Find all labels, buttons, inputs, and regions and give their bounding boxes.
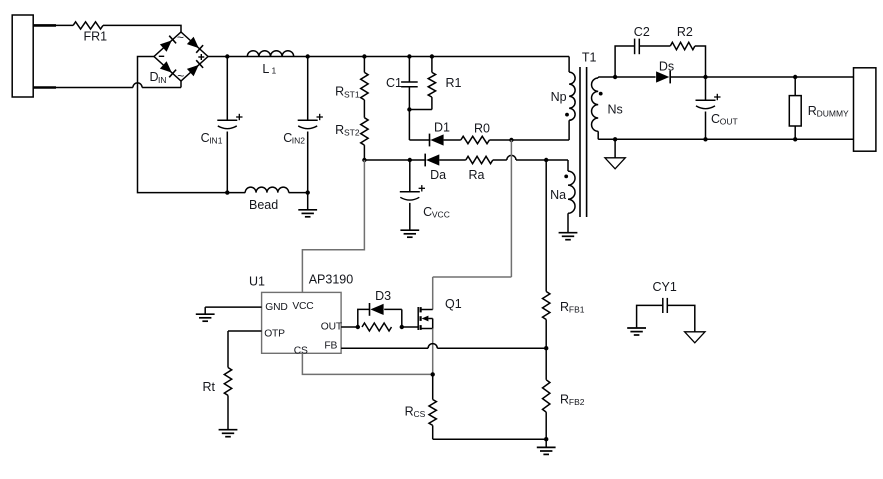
resistor R0: [461, 122, 569, 144]
svg-text:Bead: Bead: [249, 198, 278, 212]
svg-text:C2: C2: [634, 25, 650, 39]
node C1-R1 junction: [407, 107, 432, 111]
wire VCC feed: [302, 160, 364, 292]
wire: [56, 81, 181, 88]
svg-text:GND: GND: [265, 302, 287, 313]
capacitor CIN1: [201, 57, 243, 193]
wire OTP pin: [228, 331, 262, 368]
svg-text:Ds: Ds: [659, 59, 674, 73]
ground: [559, 233, 578, 240]
ground: [537, 439, 556, 454]
svg-text:C: C: [711, 112, 720, 126]
svg-text:R: R: [560, 300, 569, 314]
resistor RST2: [335, 100, 368, 160]
resistor RST1: [335, 57, 368, 100]
svg-text:Ns: Ns: [608, 103, 623, 117]
wire: [545, 160, 547, 292]
wire Ns bottom: [598, 138, 853, 140]
svg-text:R2: R2: [677, 25, 693, 39]
capacitor CIN2: [283, 57, 323, 193]
diode D3: [358, 289, 402, 327]
svg-text:R: R: [335, 85, 344, 99]
wire: [208, 56, 569, 58]
svg-text:CY1: CY1: [653, 280, 677, 294]
svg-text:CS: CS: [294, 346, 308, 357]
svg-text:IN: IN: [158, 75, 167, 85]
input connector: [12, 15, 56, 97]
transformer T1 core: [580, 51, 597, 218]
wire source drop: [432, 329, 434, 375]
node C_IN1 bottom: [225, 190, 229, 194]
node Ns top: [613, 75, 617, 79]
winding Np: [551, 57, 576, 141]
node C_IN1 top: [225, 54, 229, 58]
node drain junction: [509, 138, 513, 142]
wire: [706, 76, 854, 78]
resistor R2: [670, 25, 705, 77]
ground: [219, 430, 238, 437]
svg-text:FR1: FR1: [84, 29, 108, 43]
wire CS pin: [302, 353, 432, 374]
svg-text:R: R: [335, 123, 344, 137]
svg-text:R: R: [405, 405, 414, 419]
capacitor CY1: [653, 280, 677, 313]
capacitor C1: [386, 57, 418, 110]
svg-text:DUMMY: DUMMY: [817, 109, 849, 119]
wire FB: [341, 344, 546, 349]
wire: [433, 438, 547, 440]
output connector: [854, 68, 876, 151]
resistor RCS: [405, 374, 437, 439]
transistor Q1: [418, 297, 462, 330]
svg-text:~: ~: [177, 31, 184, 45]
resistor gate: [362, 323, 392, 331]
node FB junction: [544, 346, 548, 350]
svg-text:~: ~: [177, 69, 184, 83]
svg-text:FB: FB: [324, 341, 337, 352]
wire: [56, 24, 73, 26]
svg-text:R1: R1: [446, 76, 462, 90]
wire: [408, 110, 410, 141]
ground secondary: [605, 139, 625, 169]
resistor Ra: [466, 155, 568, 182]
node CS junction: [431, 372, 435, 376]
svg-text:OUT: OUT: [720, 117, 738, 127]
svg-text:C: C: [423, 205, 432, 219]
resistor FR1: [73, 22, 107, 44]
svg-text:ST2: ST2: [344, 128, 360, 138]
resistor RDUMMY: [789, 77, 849, 139]
node R_DUMMY bottom: [793, 137, 797, 141]
svg-text:ST1: ST1: [344, 89, 360, 99]
svg-text:Q1: Q1: [445, 297, 462, 311]
node C_OUT bottom: [703, 137, 707, 141]
resistor R1: [428, 57, 461, 110]
wire: [615, 46, 635, 77]
ground: [627, 328, 646, 335]
svg-text:AP3190: AP3190: [309, 273, 354, 287]
svg-text:OTP: OTP: [264, 329, 285, 340]
wire Ns top: [598, 76, 615, 78]
resistor RFB1: [543, 292, 585, 349]
svg-text:FB2: FB2: [569, 397, 585, 407]
diode Ds: [615, 59, 705, 83]
svg-text:IN1: IN1: [209, 135, 223, 145]
node R_ST2 bottom: [362, 158, 366, 162]
wire: [637, 305, 663, 327]
op-amp U1 AP3190 box: [249, 273, 353, 357]
svg-text:D1: D1: [434, 121, 450, 135]
diode D1: [409, 121, 460, 147]
node Ns bottom: [613, 137, 617, 141]
winding Ns: [592, 77, 623, 139]
resistor RFB2: [543, 348, 585, 439]
svg-text:Np: Np: [551, 90, 567, 104]
svg-text:Ra: Ra: [469, 168, 485, 182]
svg-text:Na: Na: [550, 188, 566, 202]
svg-text:L: L: [262, 62, 269, 76]
svg-text:FB1: FB1: [569, 305, 585, 315]
node R_FB1 top junction: [544, 158, 548, 162]
ground chassis: [685, 332, 705, 343]
resistor Rt: [203, 368, 232, 430]
node C_OUT top: [703, 75, 707, 79]
node R_DUMMY top: [793, 75, 797, 79]
winding Na: [550, 160, 575, 233]
svg-text:VCC: VCC: [432, 210, 450, 220]
ground: [298, 193, 317, 217]
node C_IN2 top: [306, 54, 310, 58]
svg-text:D3: D3: [375, 289, 391, 303]
capacitor COUT: [696, 77, 738, 139]
svg-text:IN2: IN2: [292, 135, 306, 145]
node C1 top: [407, 54, 411, 58]
inductor L1: [247, 51, 293, 76]
ground: [400, 230, 419, 237]
svg-text:1: 1: [272, 66, 277, 76]
capacitor CVCC: [400, 160, 450, 230]
svg-text:R: R: [808, 104, 817, 118]
node ground junction: [544, 437, 548, 441]
wire: [667, 305, 695, 331]
node C_IN2 bottom: [306, 190, 310, 194]
svg-text:R0: R0: [474, 122, 490, 136]
bridge rectifier DIN: [150, 31, 209, 86]
node R1 top: [430, 54, 434, 58]
wire: [103, 25, 181, 32]
svg-text:VCC: VCC: [292, 301, 314, 312]
svg-text:Rt: Rt: [203, 380, 216, 394]
node C_VCC top: [408, 158, 412, 162]
svg-text:T1: T1: [582, 51, 597, 65]
svg-text:Da: Da: [430, 168, 446, 182]
svg-text:CS: CS: [414, 409, 426, 419]
svg-text:OUT: OUT: [321, 321, 343, 332]
wire: [138, 57, 228, 193]
svg-text:C1: C1: [386, 76, 402, 90]
wire GND pin: [205, 307, 261, 314]
wire drain drop: [433, 140, 512, 310]
wire: [402, 326, 418, 328]
node R_ST1 top: [362, 54, 366, 58]
node OUT right: [400, 325, 404, 329]
capacitor C2: [634, 25, 671, 54]
svg-text:R: R: [560, 393, 569, 407]
node OUT left: [356, 325, 360, 329]
ground: [196, 314, 215, 321]
wire OUT pin: [341, 326, 358, 328]
bottom rail with ferrite Bead: [227, 187, 307, 212]
svg-text:U1: U1: [249, 274, 265, 288]
diode Da: [364, 154, 465, 183]
